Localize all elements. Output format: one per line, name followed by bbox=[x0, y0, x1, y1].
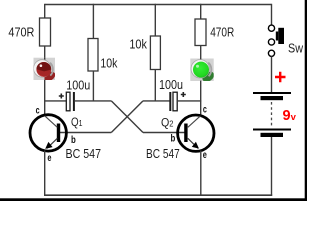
svg-text:BC 547: BC 547 bbox=[146, 146, 180, 161]
wire switch top lead bbox=[271, 4, 273, 25]
svg-text:b: b bbox=[171, 133, 176, 145]
wire Q1 base lead bbox=[60, 132, 112, 134]
svg-text:b: b bbox=[71, 134, 76, 146]
wire cross coupling C2 to Q1 base bbox=[111, 101, 143, 133]
LED D2 green icon bbox=[190, 59, 216, 84]
capacitor C1 plus sign bbox=[59, 94, 64, 99]
svg-text:100u: 100u bbox=[66, 78, 90, 93]
resistor R1 470R bbox=[40, 18, 51, 46]
capacitor C2 positive plate bbox=[173, 92, 177, 111]
capacitor C2 negative plate bbox=[169, 92, 171, 111]
wire Q1 emitter down bbox=[44, 151, 46, 196]
wire Q2 emitter down bbox=[200, 151, 202, 196]
transistor Q1 circle bbox=[30, 115, 66, 151]
resistor R2 10k bbox=[88, 39, 98, 72]
wire 470R R4 top lead bbox=[200, 4, 202, 19]
wire LED2 to Q2 collector bbox=[200, 81, 202, 117]
transistor Q2 circle bbox=[178, 115, 214, 151]
battery dashed link bbox=[271, 102, 273, 126]
transistor Q1 emitter diagonal with arrow bbox=[47, 138, 57, 148]
svg-text:10k: 10k bbox=[129, 37, 147, 52]
battery cell 1 long plate bbox=[253, 92, 291, 94]
transistor Q2 emitter diagonal with arrow bbox=[188, 138, 198, 148]
wire R1 bottom lead bbox=[44, 46, 46, 58]
switch Sw terminal 1 bbox=[268, 25, 274, 31]
wire 10k R2 bottom lead bbox=[92, 71, 94, 101]
svg-text:e: e bbox=[203, 149, 207, 161]
svg-text:100u: 100u bbox=[159, 77, 183, 92]
svg-text:c: c bbox=[36, 105, 40, 117]
resistor R4 470R bbox=[195, 19, 206, 46]
capacitor C1 positive plate bbox=[66, 92, 70, 111]
wire 10k R2 top lead bbox=[92, 4, 94, 39]
wire LED1 to Q1 collector bbox=[44, 80, 46, 117]
svg-text:Q2: Q2 bbox=[161, 115, 174, 129]
transistor Q1 collector diagonal bbox=[45, 116, 58, 128]
switch Sw actuator bbox=[278, 28, 284, 44]
svg-text:e: e bbox=[47, 152, 51, 164]
wire 10k R3 top lead bbox=[154, 4, 156, 36]
svg-text:c: c bbox=[203, 104, 207, 116]
svg-text:10k: 10k bbox=[100, 55, 117, 70]
wire R4 bottom lead bbox=[200, 46, 202, 60]
svg-text:470R: 470R bbox=[210, 25, 234, 40]
svg-text:470R: 470R bbox=[8, 25, 34, 40]
wire top rail bbox=[45, 4, 272, 6]
transistor Q2 collector diagonal bbox=[188, 116, 201, 128]
wire C2 right lead bbox=[178, 100, 201, 102]
battery cell 2 short plate bbox=[261, 133, 284, 137]
transistor Q1 base bar bbox=[57, 124, 60, 143]
capacitor C2 plus sign bbox=[181, 92, 186, 97]
capacitor C1 negative plate bbox=[73, 92, 75, 111]
battery plus sign red bbox=[275, 72, 286, 82]
LED D1 red icon bbox=[34, 58, 57, 83]
wire C2 left lead bbox=[143, 100, 170, 102]
svg-text:Q1: Q1 bbox=[71, 115, 83, 129]
wire 10k R3 bottom lead bbox=[154, 70, 156, 101]
switch Sw terminal 3 bbox=[268, 50, 274, 56]
battery cell 2 long plate bbox=[253, 129, 291, 131]
wire switch to battery bbox=[271, 56, 273, 92]
resistor R3 10k bbox=[150, 36, 160, 70]
battery cell 1 short plate bbox=[261, 96, 284, 100]
transistor Q2 base bar bbox=[184, 124, 187, 143]
wire C1 left lead bbox=[44, 100, 66, 102]
wire cross coupling C1 to Q2 base bbox=[111, 101, 143, 133]
wire battery to bottom rail bbox=[271, 137, 273, 196]
switch Sw terminal 2 bbox=[268, 39, 274, 45]
wire C1 right lead bbox=[75, 100, 111, 102]
wire bottom rail bbox=[44, 194, 272, 196]
wire Q2 base lead bbox=[143, 132, 185, 134]
svg-text:BC 547: BC 547 bbox=[66, 146, 102, 161]
wire R1 top lead bbox=[44, 4, 46, 19]
svg-text:Sw: Sw bbox=[288, 42, 304, 56]
